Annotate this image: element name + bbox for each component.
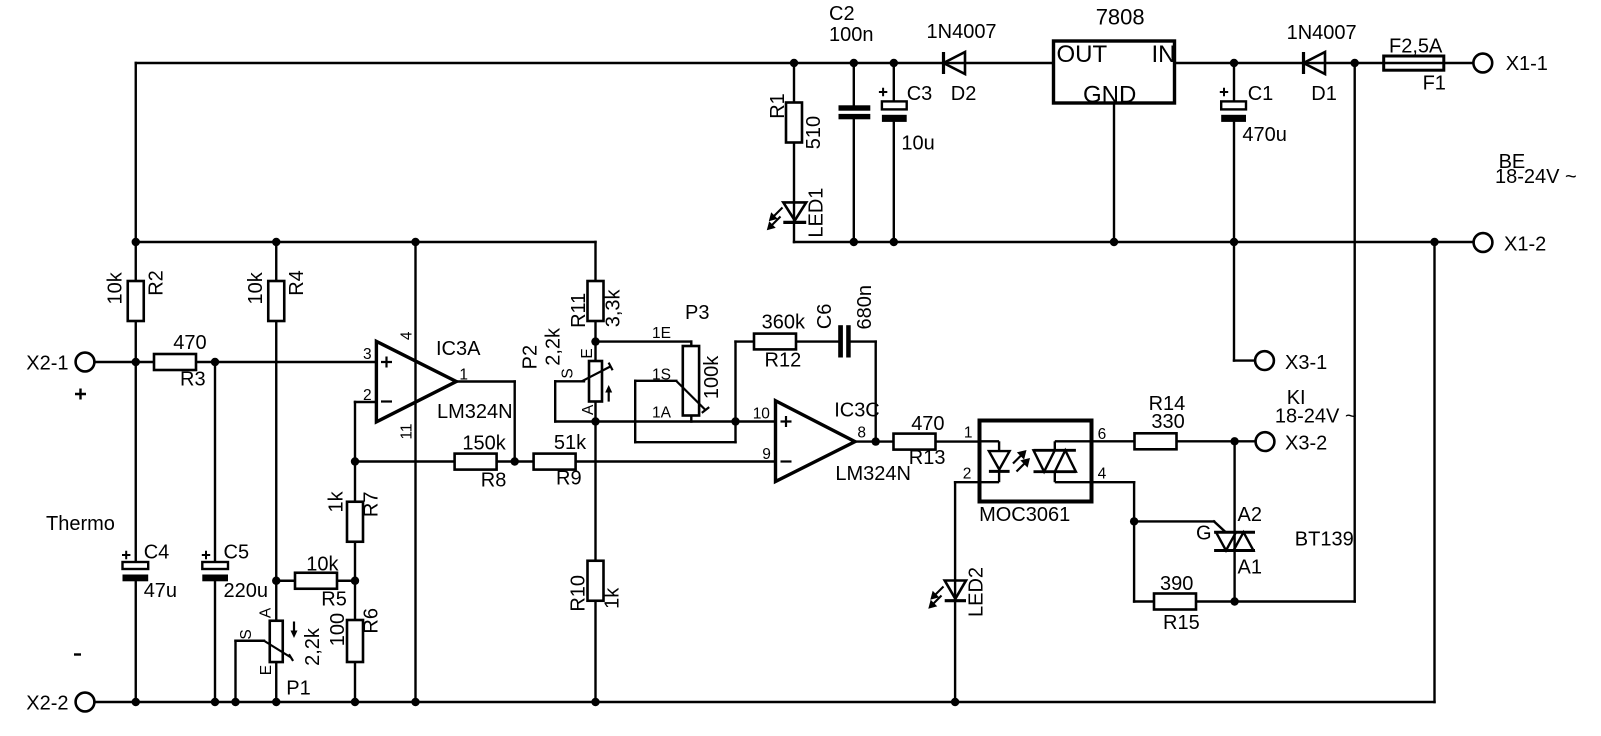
- svg-text:470: 470: [173, 332, 206, 354]
- wire P1 wiper S loop: [236, 641, 265, 702]
- svg-text:4: 4: [398, 331, 415, 340]
- svg-text:R13: R13: [909, 447, 946, 469]
- svg-text:BT139: BT139: [1295, 529, 1354, 551]
- svg-text:A2: A2: [1238, 504, 1262, 526]
- svg-text:220u: 220u: [224, 580, 269, 602]
- svg-text:IC3A: IC3A: [436, 338, 481, 360]
- svg-text:G: G: [1196, 523, 1212, 545]
- svg-text:X1-2: X1-2: [1504, 234, 1546, 256]
- potentiometer P2 2,2k: [519, 327, 612, 415]
- svg-text:C1: C1: [1248, 83, 1274, 105]
- terminal X2-1: [26, 353, 94, 400]
- wire BT139 A2/A1 column x=1234.6: [1233, 441, 1235, 601]
- svg-text:R12: R12: [765, 350, 802, 372]
- svg-text:S: S: [238, 629, 255, 639]
- junction dots +8V rail: [132, 238, 420, 246]
- resistor R8 150k: [455, 433, 507, 492]
- svg-text:C4: C4: [144, 542, 170, 564]
- resistor R4 10k: [245, 270, 308, 321]
- svg-text:3,3k: 3,3k: [603, 289, 625, 328]
- capacitor C6 680n: [814, 285, 876, 357]
- LED LED1: [768, 188, 827, 238]
- resistor R13 470: [894, 413, 946, 469]
- svg-text:47u: 47u: [144, 580, 177, 602]
- svg-text:1E: 1E: [652, 325, 671, 342]
- potentiometer P3 100k: [652, 302, 723, 422]
- svg-text:10u: 10u: [901, 133, 934, 155]
- svg-text:100n: 100n: [829, 24, 874, 46]
- svg-text:R3: R3: [180, 369, 206, 391]
- wire inverting row y=461.5 to IC3C pin9: [355, 460, 776, 462]
- svg-text:R5: R5: [321, 589, 347, 611]
- diode D2 1N4007: [927, 21, 997, 105]
- resistor R15 390: [1154, 573, 1200, 634]
- capacitor C3 10u polarized: [879, 83, 935, 155]
- wire 7808 GND stub: [1113, 103, 1115, 242]
- wire MOC pin2 to LED2 column: [955, 482, 979, 702]
- resistor R1 510: [767, 93, 825, 149]
- wire R11 bottom to P2 and R10 column x=595.5: [594, 342, 596, 702]
- svg-text:100k: 100k: [701, 355, 723, 399]
- svg-text:LM324N: LM324N: [835, 463, 911, 485]
- svg-text:Thermo: Thermo: [46, 513, 115, 535]
- svg-text:X3-1: X3-1: [1285, 352, 1327, 374]
- terminal X2-2: [26, 693, 94, 715]
- resistor R10 1k: [568, 561, 624, 612]
- terminal X3-1: [1255, 351, 1327, 374]
- resistor R12 360k: [754, 312, 806, 372]
- svg-text:10k: 10k: [104, 271, 126, 304]
- wire bottom GND2 rail y=702: [95, 701, 1435, 703]
- svg-text:10: 10: [753, 406, 771, 423]
- svg-text:1N4007: 1N4007: [1287, 22, 1357, 44]
- svg-text:1: 1: [964, 425, 973, 442]
- svg-text:X3-2: X3-2: [1285, 433, 1327, 455]
- wire C5 column x=215: [214, 362, 216, 702]
- svg-text:A1: A1: [1238, 557, 1262, 579]
- svg-text:LED2: LED2: [965, 567, 987, 617]
- svg-text:P1: P1: [286, 678, 310, 700]
- svg-text:C2: C2: [829, 3, 855, 25]
- svg-text:360k: 360k: [762, 312, 806, 334]
- svg-text:6: 6: [1098, 426, 1107, 443]
- svg-text:A: A: [580, 404, 597, 415]
- svg-text:F2,5A: F2,5A: [1389, 36, 1443, 58]
- op-amp IC3A LM324N: [363, 331, 513, 439]
- svg-text:R7: R7: [361, 492, 383, 518]
- svg-text:R6: R6: [361, 608, 383, 634]
- fuse F1 F2,5A: [1384, 36, 1446, 95]
- svg-text:R4: R4: [286, 270, 308, 296]
- junction dots top wire: [790, 59, 1359, 67]
- wire P2 wiper S loop: [555, 381, 595, 421]
- wire X2-1 to pin3 y=362: [95, 361, 377, 363]
- wire +8V left column x=135.75: [135, 63, 137, 562]
- svg-text:R2: R2: [146, 270, 168, 296]
- wire gate of BT139: [1134, 521, 1225, 531]
- wire MOC pin6 through R14 to X3-2: [1092, 440, 1256, 442]
- svg-text:P3: P3: [685, 302, 709, 324]
- capacitor C2 100n: [829, 3, 874, 119]
- svg-text:R9: R9: [556, 468, 582, 490]
- resistor R7 1k: [326, 490, 383, 541]
- junction dots analog section: [272, 337, 880, 585]
- svg-text:MOC3061: MOC3061: [979, 504, 1070, 526]
- svg-text:7808: 7808: [1096, 5, 1145, 30]
- svg-text:2,2k: 2,2k: [302, 627, 324, 666]
- potentiometer P1 2,2k: [238, 607, 324, 699]
- wire P3 wiper 1S loop: [635, 381, 735, 442]
- resistor R11 3,3k: [568, 281, 625, 328]
- svg-text:390: 390: [1160, 573, 1193, 595]
- svg-text:18-24V ~: 18-24V ~: [1275, 406, 1357, 428]
- capacitor C4 47u polarized: [122, 542, 177, 603]
- resistor R6 100: [327, 608, 383, 662]
- svg-text:GND: GND: [1083, 82, 1136, 109]
- wire pin10 row y=421.5: [596, 420, 776, 422]
- svg-text:IC3C: IC3C: [834, 400, 880, 422]
- terminal X1-1: [1473, 53, 1548, 75]
- svg-text:8: 8: [857, 425, 866, 442]
- optocoupler U MOC3061: [963, 421, 1107, 527]
- svg-text:LED1: LED1: [806, 188, 828, 238]
- node BE 18-24V~: [1495, 151, 1577, 188]
- op-amp IC3C LM324N: [753, 400, 911, 486]
- svg-text:2,2k: 2,2k: [542, 327, 564, 366]
- junction dots bottom rail: [132, 698, 960, 706]
- svg-text:C3: C3: [907, 83, 933, 105]
- wire C2 column upper: [853, 63, 855, 105]
- node KI 18-24V~: [1275, 387, 1357, 428]
- wire C2 column lower: [853, 119, 855, 242]
- wire IC3A output to feedback node: [456, 382, 514, 462]
- svg-text:1: 1: [459, 367, 468, 384]
- capacitor C5 220u polarized: [202, 542, 268, 603]
- node Thermo label: [46, 513, 115, 655]
- terminal X3-2: [1256, 432, 1328, 454]
- triac Q BT139: [1196, 504, 1354, 579]
- wire D1 junction column x=1354.7 down to triac return: [1235, 63, 1355, 602]
- svg-text:S: S: [559, 368, 576, 378]
- svg-text:P2: P2: [519, 345, 541, 369]
- svg-text:1k: 1k: [326, 490, 348, 512]
- wire R12/C6 feedback branch: [736, 342, 876, 443]
- svg-text:IN: IN: [1152, 41, 1176, 68]
- svg-text:680n: 680n: [854, 285, 876, 330]
- svg-text:470u: 470u: [1242, 124, 1287, 146]
- svg-text:D1: D1: [1311, 83, 1337, 105]
- resistor R3 470: [154, 332, 207, 391]
- wire C3 column lower: [893, 122, 895, 242]
- svg-text:D2: D2: [951, 83, 977, 105]
- svg-text:51k: 51k: [554, 432, 587, 454]
- regulator U 7808: [1054, 5, 1176, 109]
- wire C1 column lower and X3-1 feed: [1234, 122, 1255, 361]
- svg-text:18-24V ~: 18-24V ~: [1495, 166, 1577, 188]
- wire +8V rail y=242 left segment into R11: [136, 242, 596, 342]
- svg-text:X2-2: X2-2: [26, 693, 68, 715]
- wire top +V raw net y=63: [136, 62, 1474, 64]
- svg-text:A: A: [258, 607, 275, 618]
- svg-text:C5: C5: [224, 542, 250, 564]
- wire R15 row y=601.5: [1134, 600, 1235, 602]
- terminal X1-2: [1474, 233, 1547, 255]
- svg-text:C6: C6: [814, 304, 836, 330]
- wire IC3A pin2 node / R7 R6 column x=355: [355, 402, 376, 702]
- svg-text:9: 9: [762, 446, 771, 463]
- wire MOC pin4 to gate node: [1092, 482, 1135, 601]
- svg-text:330: 330: [1151, 411, 1184, 433]
- svg-text:R15: R15: [1163, 612, 1200, 634]
- svg-text:11: 11: [398, 423, 415, 439]
- svg-text:150k: 150k: [462, 433, 506, 455]
- wire C3 column upper: [893, 63, 895, 101]
- resistor R9 51k: [534, 432, 588, 490]
- svg-text:1S: 1S: [652, 367, 671, 384]
- svg-text:F1: F1: [1423, 73, 1446, 95]
- wire C1 column upper: [1233, 63, 1235, 101]
- wire R5 row y=580.75: [276, 580, 355, 582]
- svg-text:1N4007: 1N4007: [927, 21, 997, 43]
- wire left column below C4 to bottom rail: [135, 581, 137, 702]
- wire IC3A power column x=415.5: [414, 242, 416, 702]
- junction dots X2-1 row: [132, 358, 220, 366]
- svg-text:510: 510: [803, 116, 825, 149]
- wire IC3C output to MOC pin1 y=441.6: [855, 440, 980, 442]
- junction dots GND rail: [850, 238, 1439, 246]
- svg-text:470: 470: [911, 413, 944, 435]
- svg-text:10k: 10k: [245, 271, 267, 304]
- resistor R5 10k: [295, 554, 347, 611]
- resistor R14 330: [1135, 393, 1186, 449]
- wire X1-2 right column x=1434.5: [1433, 242, 1435, 702]
- svg-text:1k: 1k: [601, 587, 623, 609]
- svg-text:X1-1: X1-1: [1506, 53, 1548, 75]
- junction dots output section: [1130, 437, 1239, 606]
- wire GND rail y=242 right segment: [794, 241, 1474, 243]
- svg-text:E: E: [258, 665, 275, 675]
- capacitor C1 470u polarized: [1220, 83, 1287, 146]
- svg-text:X2-1: X2-1: [26, 353, 68, 375]
- svg-text:R10: R10: [568, 575, 590, 612]
- diode D1 1N4007: [1287, 22, 1357, 105]
- svg-text:R1: R1: [767, 93, 789, 119]
- svg-text:100: 100: [327, 613, 349, 646]
- svg-text:4: 4: [1098, 466, 1107, 483]
- resistor R2 10k: [104, 270, 167, 321]
- svg-text:10k: 10k: [306, 554, 339, 576]
- svg-text:LM324N: LM324N: [437, 401, 513, 423]
- svg-text:3: 3: [363, 346, 372, 363]
- wire R4/P1 column x=276.25: [275, 242, 277, 702]
- svg-text:1A: 1A: [652, 405, 672, 422]
- svg-text:2: 2: [363, 387, 372, 404]
- wire node 1E to P3 top: [596, 342, 692, 422]
- svg-text:R11: R11: [568, 293, 590, 328]
- svg-text:R8: R8: [481, 470, 507, 492]
- svg-text:OUT: OUT: [1057, 41, 1108, 68]
- svg-text:2: 2: [963, 466, 972, 483]
- svg-text:E: E: [579, 348, 596, 358]
- wire R1/LED1 column x=794: [793, 63, 795, 242]
- LED LED2: [930, 567, 988, 617]
